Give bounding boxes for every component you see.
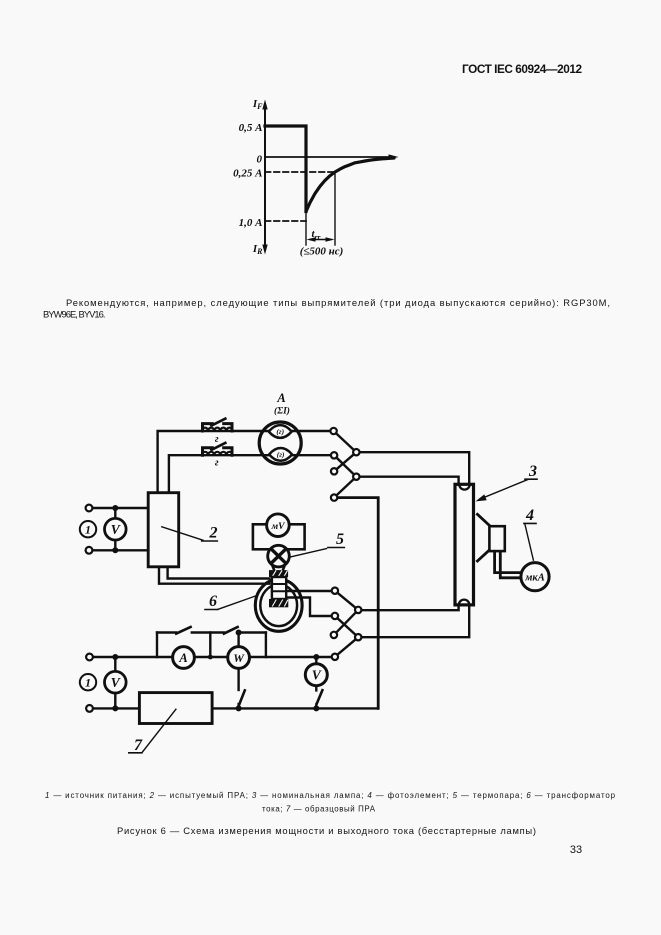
leader line to label 3 with arrow — [480, 480, 528, 500]
wire: photocell to microammeter — [495, 551, 524, 578]
photocell 4 (box) — [489, 526, 504, 551]
svg-text:IR: IR — [252, 243, 263, 256]
source symbol 1 (upper) — [80, 521, 96, 537]
svg-text:1: 1 — [85, 675, 91, 689]
svg-text:г: г — [215, 458, 219, 469]
svg-text:мкА: мкА — [524, 572, 545, 583]
svg-text:3: 3 — [528, 463, 537, 480]
ballast under test 2 (box) — [148, 493, 179, 567]
schematic text labels — [85, 391, 545, 754]
svg-text:trr: trr — [312, 228, 321, 242]
wire: heater output to contact k3 — [287, 598, 332, 617]
t_rr measurement lines — [305, 213, 307, 245]
svg-text:(ΣΙ): (ΣΙ) — [274, 406, 290, 417]
svg-text:мV: мV — [271, 522, 286, 532]
svg-text:Рекомендуются, например, следу: Рекомендуются, например, следующие типы … — [66, 297, 610, 308]
leader line to label 6 — [218, 595, 258, 609]
input terminals (lower pair) — [86, 654, 93, 661]
svg-text:2: 2 — [209, 524, 218, 541]
wire: contact A5 to lamp top left pin — [359, 477, 458, 485]
thermocouple funnel to heater block — [272, 564, 285, 570]
svg-text:0,25 А: 0,25 А — [233, 168, 262, 180]
wire: voltmeter V3 taps with switch S6 — [315, 657, 317, 690]
leader line to label 4 — [525, 525, 533, 561]
svg-text:V: V — [111, 675, 121, 690]
thermocouple 5 (circle with cross) — [268, 545, 290, 567]
voltmeter V3 — [305, 664, 327, 686]
ammeter group A(ΣΙ) big circle — [259, 422, 301, 464]
source symbol 1 (lower) — [80, 674, 96, 690]
svg-text:4: 4 — [525, 507, 534, 524]
wire: wattmeter voltage tap down with switch S5 — [237, 668, 239, 690]
leader line to label 5 — [290, 549, 327, 558]
lamp 3 (fluorescent tube) — [455, 484, 474, 605]
wire: voltmeter V1 taps — [114, 508, 116, 550]
wire: lamp bottom right pin down to contact k5 — [361, 605, 469, 637]
svg-text:6: 6 — [209, 593, 217, 610]
heater block top clamp (hatched) — [269, 570, 288, 577]
shunt r2 wavy element on rail 2 — [202, 452, 233, 455]
voltmeter V1 — [105, 518, 127, 540]
transformer T (current transformer ring, element 6) — [255, 579, 302, 631]
axis vertical I_F / I_R — [264, 104, 266, 250]
reference ballast 7 (box) — [139, 693, 212, 724]
svg-text:V: V — [111, 522, 121, 537]
svg-text:г: г — [215, 434, 219, 445]
dashed 1,0 A level — [265, 220, 306, 222]
svg-text:W: W — [233, 651, 245, 665]
shunt r1 wavy element on rail 1 — [202, 428, 233, 431]
wire: lower source top line to contact k6 — [93, 656, 332, 658]
wire: lower source bottom line through reference ballast 7 — [93, 707, 378, 709]
wire: rail 1 from ballast 2 top to ammeter row — [158, 431, 331, 493]
changeover switch SA2 diagonals (lower cluster) — [334, 591, 358, 657]
current pulse waveform — [265, 126, 306, 212]
svg-text:1: 1 — [85, 522, 91, 536]
dashed 0,25 A level — [265, 171, 335, 173]
wire: voltmeter V2 taps — [114, 657, 116, 708]
millivoltmeter mV — [267, 514, 290, 537]
contacts of changeover switch SA1 — [330, 428, 336, 434]
millivoltmeter loop rectangle — [253, 524, 305, 549]
heater winding (striped block through ring) — [272, 577, 286, 599]
wire: heater output to contact k1 — [288, 590, 332, 592]
switch S3 blade (bypass of ammeter A) — [176, 627, 190, 634]
wire: ballast 2 bottom pair to thermocouple heater — [168, 567, 270, 579]
switch bypass over shunt r1 — [203, 424, 233, 431]
wire: meter bypass posts — [157, 633, 266, 658]
changeover switch SA1 diagonals (upper cluster) — [334, 431, 357, 498]
wire: source terminals to ballast 2 (upper feed pair) — [92, 508, 148, 550]
svg-text:7: 7 — [134, 737, 143, 754]
svg-text:А: А — [276, 391, 285, 405]
switch bypass over shunt r2 — [203, 448, 233, 455]
wire: contact k2 to lamp bottom left pin — [361, 605, 458, 610]
svg-text:А: А — [178, 651, 187, 665]
microammeter мкА — [521, 563, 549, 591]
callout underlines — [129, 479, 537, 753]
heater block bottom clamp (hatched) — [269, 599, 288, 607]
meter lens (г) upper — [269, 425, 292, 438]
svg-text:V: V — [312, 667, 322, 682]
svg-text:Рисунок 6 — Схема измерения мо: Рисунок 6 — Схема измерения мощности и в… — [117, 825, 536, 836]
svg-text:1 — источник питания; 2 — испы: 1 — источник питания; 2 — испытуемый ПРА… — [45, 791, 616, 800]
wire: rail 2 from ballast 2 top to ammeter row — [169, 455, 331, 493]
svg-text:0,5 А: 0,5 А — [239, 122, 263, 134]
svg-text:(г): (г) — [276, 427, 284, 436]
svg-text:IF: IF — [252, 98, 263, 111]
wire: contact A6 to common return (long vertical) — [337, 498, 378, 709]
junction dots — [112, 505, 319, 711]
wattmeter W — [228, 647, 250, 669]
svg-text:(г): (г) — [277, 450, 285, 459]
voltmeter V2 — [105, 671, 127, 693]
contacts of changeover switch SA2 — [332, 588, 338, 594]
leader line to label 7 — [142, 709, 176, 752]
svg-text:ГОСТ IEC 60924—2012: ГОСТ IEC 60924—2012 — [462, 62, 582, 76]
photocell light rays — [477, 514, 489, 561]
svg-text:BYW96E, BYV16.: BYW96E, BYV16. — [43, 309, 106, 320]
switch S4 blade (bypass of wattmeter W) — [224, 627, 238, 634]
leader line to label 2 — [162, 527, 203, 540]
svg-text:5: 5 — [336, 531, 344, 548]
ammeter A (lower row) — [173, 647, 195, 669]
svg-text:33: 33 — [570, 844, 582, 856]
axis zero line with right arrow — [265, 156, 393, 158]
svg-text:1,0 А: 1,0 А — [239, 217, 263, 229]
svg-text:тока; 7 — образцовый ПРА: тока; 7 — образцовый ПРА — [262, 805, 376, 814]
wire: contact A2 to lamp top right pin — [359, 452, 469, 484]
input terminals (upper pair) — [86, 505, 93, 512]
svg-text:(≤500 нс): (≤500 нс) — [300, 246, 344, 258]
meter lens (г) lower — [269, 448, 292, 461]
wire: meter bypass line segments — [157, 631, 266, 633]
wire: wattmeter voltage tap up to bypass — [237, 633, 239, 648]
graph text labels — [233, 98, 343, 258]
svg-text:0: 0 — [257, 153, 263, 165]
